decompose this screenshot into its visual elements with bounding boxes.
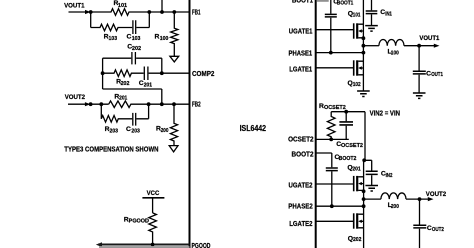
resistor R202: [103, 70, 144, 77]
svg-text:LGATE1: LGATE1: [289, 65, 312, 74]
wire comp network left vertical: [102, 58, 104, 89]
wire COMP2: [149, 72, 190, 74]
capacitor COUT1 bottom lead: [418, 75, 420, 93]
wire PHASE2 to L200: [364, 198, 381, 200]
wire ROCSET2 top node: [331, 111, 365, 113]
node junction L100: [362, 44, 366, 48]
node junction COUT2: [418, 197, 422, 201]
node junction ROCSET2 bottom: [329, 138, 333, 142]
svg-text:OUT2: OUT2: [432, 227, 444, 233]
svg-text:101: 101: [353, 12, 361, 18]
svg-text:201: 201: [144, 82, 152, 88]
svg-text:100: 100: [391, 51, 399, 57]
capacitor COCSET2 top lead: [345, 112, 347, 122]
capacitor C202: [132, 52, 136, 64]
capacitor COUT2 bottom lead (cut): [419, 229, 421, 248]
arrow VOUT1 input: [85, 10, 91, 14]
node junction VOUT2 entry: [89, 102, 93, 106]
svg-text:ISL6442: ISL6442: [240, 124, 267, 133]
ground COUT1: [413, 93, 426, 98]
node junction PHASE2: [362, 204, 366, 208]
svg-text:PGOOD: PGOOD: [192, 241, 211, 248]
node junction R200 top: [172, 102, 176, 106]
capacitor CIN2: [366, 171, 378, 174]
capacitor COCSET2: [339, 122, 353, 125]
svg-text:TYPE3 COMPENSATION SHOWN: TYPE3 COMPENSATION SHOWN: [64, 145, 158, 154]
transistor Q101: [354, 23, 364, 38]
svg-text:UGATE1: UGATE1: [289, 26, 313, 35]
wire PHASE1 to L100: [363, 45, 379, 47]
svg-text:203: 203: [110, 128, 119, 134]
svg-text:201: 201: [352, 167, 360, 173]
transistor Q202 body arrow: [358, 220, 362, 223]
svg-text:202: 202: [121, 81, 130, 87]
arrow VOUT2 out: [428, 197, 434, 201]
wire OCSET2: [316, 138, 349, 140]
arrow VOUT1 out: [434, 44, 440, 48]
wire PHASE1: [316, 52, 364, 54]
node junction COUT1: [417, 44, 421, 48]
svg-text:PHASE1: PHASE1: [289, 48, 313, 57]
svg-text:VOUT1: VOUT1: [64, 3, 85, 10]
ground Q102: [357, 91, 370, 97]
capacitor CBOOT2: [326, 168, 338, 171]
wire UGATE1: [316, 29, 353, 31]
svg-text:201: 201: [119, 96, 127, 102]
resistor R100: [171, 12, 178, 56]
node junction comp left: [101, 71, 105, 75]
node junction Q101 source: [362, 36, 366, 40]
node junction PHASE1: [362, 51, 366, 55]
resistor R101: [91, 9, 150, 16]
wire PGOOD bottom: [98, 244, 190, 246]
capacitor CIN1: [366, 11, 378, 14]
wire VOUT1 input: [69, 11, 87, 13]
node junction VIN2/Q201 drain: [362, 158, 366, 162]
transistor Q101 body arrow: [358, 29, 362, 32]
node junction CBOOT1/PHASE1: [329, 51, 333, 55]
wire L100 to VOUT1: [404, 45, 435, 47]
svg-text:VOUT1: VOUT1: [419, 35, 439, 42]
capacitor CBOOT1 top lead: [330, 0, 332, 14]
wire CBOOT2 to PHASE2: [331, 171, 333, 206]
capacitor C103: [133, 20, 136, 34]
wire BOOT2: [316, 152, 332, 154]
svg-text:VOUT2: VOUT2: [65, 94, 85, 101]
svg-text:VOUT2: VOUT2: [426, 191, 446, 198]
inductor L200: [381, 193, 406, 199]
svg-text:OCSET2: OCSET2: [288, 134, 314, 143]
svg-text:UGATE2: UGATE2: [289, 180, 313, 189]
ground CIN1: [365, 26, 378, 32]
capacitor C203: [133, 113, 136, 126]
svg-text:102: 102: [353, 82, 361, 88]
svg-text:FB1: FB1: [192, 8, 201, 17]
svg-text:VIN2 = VIN: VIN2 = VIN: [370, 108, 400, 117]
wire R103 branch drop: [90, 12, 92, 28]
wire FB1 rail: [149, 11, 189, 13]
wire BOOT1 stub (cut, grey): [317, 0, 329, 2]
power rail VCC bar: [142, 197, 164, 199]
svg-text:PGOOD: PGOOD: [129, 218, 149, 224]
inductor L100: [379, 39, 404, 45]
svg-text:C: C: [127, 33, 132, 40]
node junction comp right: [160, 71, 164, 75]
svg-text:LGATE2: LGATE2: [289, 219, 312, 228]
IC ISL6442 left edge: [189, 0, 191, 248]
capacitor CIN1 top lead: [371, 0, 373, 10]
resistor R200: [170, 104, 177, 145]
svg-text:OCSET2: OCSET2: [324, 105, 346, 111]
wire R203 branch drop: [100, 104, 102, 119]
svg-text:103: 103: [132, 36, 141, 42]
capacitor COUT2 top lead: [419, 199, 421, 224]
svg-text:101: 101: [118, 3, 127, 9]
svg-text:FB2: FB2: [192, 100, 201, 109]
capacitor COUT1: [413, 71, 426, 74]
svg-text:200: 200: [161, 128, 169, 134]
resistor RPGOOD: [149, 213, 157, 244]
wire LGATE1: [316, 67, 353, 69]
node junction COCSET2 top: [344, 110, 348, 114]
node junction L200: [362, 197, 366, 201]
wire UGATE2: [316, 183, 353, 185]
capacitor COUT2: [413, 225, 426, 228]
svg-text:IN1: IN1: [385, 12, 392, 18]
ground arrow R100: [170, 56, 179, 62]
wire L200 to VOUT2: [406, 198, 429, 200]
svg-text:OUT1: OUT1: [431, 72, 443, 78]
node junction R100 top: [172, 10, 176, 14]
capacitor C202 branch wire: [103, 57, 162, 59]
capacitor CIN1 bottom lead: [371, 14, 373, 25]
resistor R103: [91, 24, 133, 31]
wire CIN2 branch: [364, 160, 372, 170]
svg-text:BOOT1: BOOT1: [292, 0, 313, 4]
resistor R203: [101, 116, 132, 123]
svg-text:COMP2: COMP2: [192, 69, 214, 78]
wire top stub to cut edge: [161, 0, 163, 12]
capacitor CBOOT2 top lead: [331, 153, 333, 167]
node junction R201/C203: [147, 102, 151, 106]
wire VOUT2 input: [68, 103, 86, 105]
svg-text:C: C: [126, 126, 131, 133]
node junction top stub: [160, 10, 164, 14]
svg-text:202: 202: [353, 237, 361, 243]
svg-text:IN2: IN2: [386, 173, 393, 179]
IC ISL6442 right edge: [315, 0, 317, 248]
resistor ROCSET2: [327, 112, 335, 140]
wire CBOOT1 to PHASE1: [330, 18, 332, 53]
capacitor CBOOT1: [325, 14, 337, 17]
wire C203 riser: [136, 104, 148, 119]
svg-text:103: 103: [109, 36, 118, 42]
transistor Q201: [354, 176, 364, 191]
capacitor C201: [144, 67, 148, 81]
svg-text:OCSET2: OCSET2: [341, 143, 363, 149]
svg-text:VCC: VCC: [147, 190, 160, 197]
wire LGATE2: [316, 220, 353, 222]
node junction RPGOOD/PGOOD: [151, 243, 155, 247]
svg-text:203: 203: [131, 128, 140, 134]
transistor Q102 body arrow: [358, 66, 362, 69]
wire comp bottom link: [103, 89, 162, 104]
capacitor CIN2 bottom lead: [371, 175, 373, 185]
ground arrow R200: [169, 146, 178, 152]
capacitor COCSET2 bottom lead: [345, 126, 347, 140]
node junction CBOOT2/PHASE2: [330, 204, 334, 208]
ground CIN2: [365, 186, 378, 192]
capacitor COUT1 top lead: [418, 46, 420, 71]
arrow VOUT2 input: [85, 102, 91, 106]
resistor R201: [109, 101, 149, 108]
arrow PGOOD left: [96, 242, 102, 247]
node junction R101/C103: [147, 10, 151, 14]
transistor Q102: [354, 60, 364, 75]
transistor Q201 body arrow: [358, 182, 362, 185]
wire VIN column channel 1: [362, 0, 364, 91]
node junction Q201 source: [362, 189, 366, 193]
svg-text:100: 100: [160, 36, 169, 42]
wire VCC to RPGOOD: [152, 198, 154, 213]
wire VOUT2 to branch: [89, 103, 109, 105]
wire FB2 rail: [149, 103, 190, 105]
wire C103 to rail riser: [136, 12, 149, 28]
wire VIN2 drop: [364, 112, 366, 161]
svg-text:BOOT1: BOOT1: [337, 1, 353, 7]
svg-text:BOOT2: BOOT2: [292, 150, 314, 159]
node junction VOUT2 branch: [99, 102, 103, 106]
svg-text:BOOT2: BOOT2: [339, 156, 357, 162]
wire PHASE2: [316, 205, 364, 207]
wire VIN column channel 2: [363, 160, 365, 248]
svg-text:PHASE2: PHASE2: [288, 202, 313, 211]
transistor Q202: [354, 213, 364, 228]
svg-text:202: 202: [132, 46, 141, 52]
wire PGOOD cut grey strip: [99, 246, 190, 248]
svg-text:R: R: [155, 34, 160, 41]
wire comp network right vertical: [161, 58, 163, 73]
node junction comp link: [160, 102, 164, 106]
node junction VOUT1/R101/R103: [89, 10, 93, 14]
svg-text:200: 200: [391, 204, 399, 210]
